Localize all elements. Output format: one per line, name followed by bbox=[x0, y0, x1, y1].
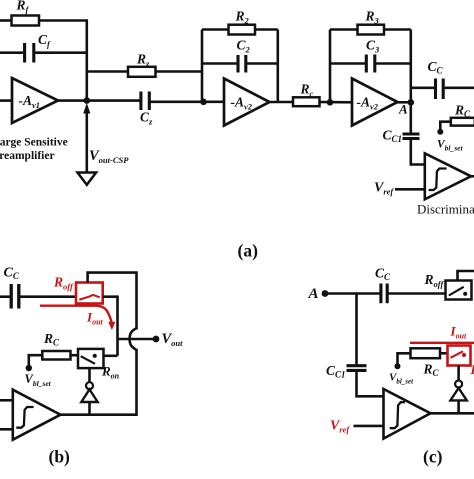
wire: Vref lead (c) bbox=[354, 425, 384, 428]
wire: Cc right lead bbox=[444, 87, 474, 90]
resistor RC (c) bbox=[411, 348, 441, 358]
wire: R3 right lead bbox=[384, 28, 411, 31]
capacitor Cc bbox=[436, 79, 444, 100]
wire: Ron to diode (c) bbox=[457, 366, 460, 381]
hysteresis symbol U4 bbox=[429, 169, 447, 191]
wire: branch vertical to Ron right lead (b) bbox=[116, 297, 119, 356]
svg-text:A: A bbox=[308, 286, 319, 302]
wire: C3 right lead bbox=[376, 62, 411, 65]
wire: C2 right lead bbox=[247, 62, 278, 65]
wire: Ron to diode (b) bbox=[88, 368, 91, 382]
wire: discriminator output stub bbox=[471, 175, 474, 178]
resistor RC (b) bbox=[42, 351, 70, 360]
capacitor C3 bbox=[366, 55, 375, 73]
node Vbl_set (b) bbox=[26, 365, 32, 371]
svg-text:Preamplifier: Preamplifier bbox=[0, 150, 55, 162]
wire: Vbl_set stub (c) bbox=[398, 353, 411, 365]
wire: stage2 feedback right vertical bbox=[276, 30, 279, 103]
wire: C2 left lead bbox=[202, 62, 237, 65]
current line Iout (c) bbox=[410, 342, 474, 344]
wire: Cc to Roff (c) bbox=[388, 292, 445, 295]
wire: stage3 feedback right vertical bbox=[409, 30, 412, 103]
resistor R3 bbox=[358, 25, 385, 35]
transistor Q1 body curve (b) bbox=[130, 328, 137, 350]
diode D2 circle (c) bbox=[455, 381, 462, 388]
wire: Cf right lead bbox=[35, 51, 87, 54]
comparator U6 discriminator (c) bbox=[384, 389, 431, 439]
capacitor Cz bbox=[141, 92, 149, 111]
node Vbl_set (a) bbox=[437, 129, 443, 135]
switch Ron contact dot (c) bbox=[462, 353, 466, 357]
switch Ron contact dot (b) bbox=[93, 354, 97, 358]
wire: Vout-CSP probe line with up arrow bbox=[86, 108, 89, 173]
svg-text:Charge Sensitive: Charge Sensitive bbox=[0, 136, 68, 148]
node stage3 input bbox=[327, 99, 334, 106]
wire: U5 input- stub (b) bbox=[0, 428, 13, 431]
comparator U5 discriminator (b) bbox=[13, 390, 61, 440]
switch Roff box (b) bbox=[76, 283, 103, 304]
wire: U2 output bbox=[270, 101, 294, 104]
switch Ron box (c) bbox=[448, 346, 471, 366]
ground bbox=[78, 173, 97, 185]
wire: Vbl_set stub (b) bbox=[29, 355, 43, 366]
capacitor Cf bbox=[25, 43, 34, 63]
hysteresis symbol U5 (b) bbox=[16, 407, 33, 428]
wire: stage2 feedback left vertical bbox=[201, 30, 204, 102]
switch Roff lever (c) bbox=[449, 287, 464, 296]
wire: RC to Ron (c) bbox=[440, 352, 448, 355]
hysteresis symbol U6 (c) bbox=[390, 402, 405, 428]
wire: Cc1 to discriminator input bbox=[411, 140, 425, 165]
switch Roff contact dot (c) bbox=[463, 292, 467, 296]
op-amp U1 bbox=[12, 78, 58, 123]
svg-text:(c): (c) bbox=[423, 447, 443, 467]
wire: Roff top stub (c) bbox=[458, 271, 474, 281]
diode D1 triangle (b) bbox=[81, 389, 97, 402]
wire: R3 left lead bbox=[330, 28, 358, 31]
wire: R2 left lead bbox=[202, 28, 229, 31]
wire: diode to output line (c) bbox=[457, 400, 460, 413]
resistor RC (a) bbox=[451, 118, 474, 126]
node Vout (b) bbox=[153, 336, 160, 343]
wire: A down to Cc1 (c) bbox=[355, 294, 358, 365]
node Vout-CSP junction bbox=[84, 97, 91, 104]
wire: Cf left lead bbox=[0, 51, 23, 54]
wire: A to Cc (c) bbox=[325, 292, 380, 295]
wire: U3 output to node A bbox=[398, 101, 411, 104]
wire: stage1 feedback vertical bbox=[86, 21, 89, 101]
wire: U5 input+ stub (b) bbox=[0, 399, 13, 402]
diode D1 circle (b) bbox=[86, 382, 93, 389]
wire: Ron right lead (b) bbox=[104, 354, 118, 357]
wire: Cc left lead (b) bbox=[0, 295, 10, 298]
svg-text:Discrimina.: Discrimina. bbox=[417, 202, 474, 217]
capacitor Cc (b) bbox=[11, 284, 19, 309]
wire: R2 right lead bbox=[255, 28, 278, 31]
resistor Rf bbox=[12, 16, 40, 26]
op-amp U3 bbox=[352, 79, 398, 126]
wire: Vref lead (a) bbox=[395, 188, 425, 191]
wire: U6 output line (c) bbox=[431, 412, 474, 415]
wire: Cz to stage2 input node bbox=[151, 101, 225, 104]
capacitor Cc (c) bbox=[381, 284, 387, 304]
diode D2 triangle (c) bbox=[450, 388, 466, 400]
wire: node A to Cc1 bbox=[409, 102, 412, 133]
switch Roff box (c) bbox=[446, 281, 472, 300]
wire: stage3 feedback left vertical bbox=[329, 30, 332, 103]
wire: U1 output to C_z bbox=[58, 99, 141, 102]
wire: Cc left lead bbox=[411, 87, 434, 90]
op-amp U2 bbox=[224, 79, 270, 126]
wire: Cc1 to discriminator input (c) bbox=[357, 372, 384, 397]
wire: Cc right lead to Roff (b) bbox=[20, 295, 76, 298]
comparator U4 (discriminator) bbox=[425, 153, 471, 199]
wire: Rz left lead from stage1 feedback bbox=[87, 70, 128, 73]
capacitor Cc1 bbox=[403, 134, 420, 139]
wire: stage1 input bbox=[0, 99, 13, 102]
wire: Rc right lead bbox=[320, 101, 353, 104]
wire: Q1 to Vout (b) bbox=[118, 338, 155, 341]
node Vbl_set (c) bbox=[395, 363, 401, 369]
svg-text:A: A bbox=[398, 102, 408, 117]
wire: C3 left lead bbox=[330, 62, 365, 65]
wire: Roff to output branch (b) bbox=[103, 295, 119, 298]
capacitor C2 bbox=[238, 55, 246, 73]
wire: U5 output line (b) bbox=[61, 413, 138, 416]
capacitor Cc1 (c) bbox=[347, 366, 367, 371]
node A (c) bbox=[322, 290, 329, 297]
current arrow Iout (b) bbox=[40, 306, 112, 323]
resistor Rz bbox=[128, 67, 156, 77]
wire: RC to Ron (b) bbox=[71, 354, 79, 357]
node stage2 input bbox=[200, 99, 207, 106]
wire: Rf right lead bbox=[39, 19, 88, 22]
switch Ron lever (c) bbox=[451, 351, 464, 358]
switch Ron lever (b) bbox=[81, 356, 95, 364]
svg-text:Ron: Ron bbox=[470, 362, 474, 379]
resistor Rc bbox=[293, 97, 320, 106]
svg-text:(a): (a) bbox=[238, 241, 259, 261]
wire: Roff bypass top loop (b) bbox=[88, 273, 137, 330]
svg-text:(b): (b) bbox=[49, 447, 71, 467]
wire: diode to output line (b) bbox=[88, 402, 91, 415]
switch Ron box (b) bbox=[78, 349, 104, 368]
wire: Rf left lead bbox=[0, 19, 12, 22]
wire: RC left lead to Vbl_set bbox=[440, 122, 451, 130]
resistor R2 bbox=[229, 25, 256, 35]
wire: Rz right lead bbox=[156, 70, 203, 73]
node A bbox=[408, 99, 415, 106]
switch Roff lever (b) bbox=[79, 295, 99, 300]
wire: Q1 down to discriminator output line (b) bbox=[135, 349, 138, 415]
